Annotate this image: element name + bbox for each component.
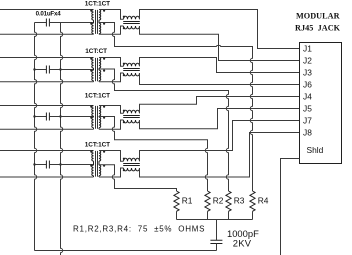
- transformer T2 dot primary bottom: [90, 70, 92, 72]
- choke L1 dot bottom: [123, 27, 125, 29]
- choke L4 winding bottom: [124, 168, 140, 171]
- svg-text:1CT:CT: 1CT:CT: [85, 48, 107, 55]
- choke L4 link top: [99, 151, 124, 162]
- transformer T4 secondary winding top: [99, 151, 101, 162]
- RJ45 jack box: [300, 43, 342, 164]
- junction dot bus A ch4: [33, 163, 35, 165]
- choke L3 link top: [99, 106, 124, 114]
- wire input lead B ch2: [0, 81, 94, 83]
- resistor R3 75 ohm: [226, 191, 231, 211]
- transformer T3 dot secondary top: [103, 106, 105, 108]
- capacitor C4 plates: [46, 161, 49, 169]
- junction dot bus A ch3: [33, 115, 35, 117]
- wire ch4 out A to J7: [140, 121, 300, 162]
- choke L4 link bottom: [99, 168, 124, 177]
- choke L3 core: [123, 116, 140, 118]
- svg-text:R1,R2,R3,R4: 75 ±5% OHMS: R1,R2,R3,R4: 75 ±5% OHMS: [73, 224, 205, 233]
- transformer T4 secondary winding bottom: [99, 165, 101, 176]
- svg-text:J3: J3: [303, 68, 312, 78]
- resistor R4 75 ohm: [250, 191, 255, 211]
- choke L1 link bottom: [99, 26, 124, 34]
- transformer T2 core: [96, 58, 98, 81]
- junction dot bus B ch2: [59, 68, 61, 70]
- transformer T4 core: [96, 151, 98, 177]
- svg-text:R4: R4: [258, 196, 269, 206]
- svg-text:1CT:1CT: 1CT:1CT: [85, 1, 110, 8]
- wire ch2 out A to J3: [140, 58, 300, 73]
- transformer T1 primary winding bottom: [92, 23, 94, 34]
- wire center tap ch4 to R1: [99, 165, 177, 191]
- resistor R1 75 ohm: [174, 191, 179, 211]
- wire ch3 out A to J4: [140, 97, 300, 114]
- svg-text:R3: R3: [234, 196, 245, 206]
- svg-text:J5: J5: [303, 104, 312, 114]
- capacitor C1 plates: [46, 19, 49, 27]
- transformer T4 dot primary top: [90, 151, 92, 153]
- wire ch3 out B to J5: [140, 109, 300, 129]
- resistor R2 75 ohm: [205, 191, 210, 211]
- capacitor C5 plates: [210, 240, 222, 243]
- transformer T4 secondary connect: [98, 161, 100, 177]
- transformer T2 primary connect: [93, 68, 95, 82]
- transformer T4 primary connect: [93, 161, 95, 177]
- wire center tap ch3 to R2: [99, 117, 208, 192]
- capacitor C2 plates: [46, 66, 49, 74]
- svg-text:J7: J7: [303, 116, 312, 126]
- svg-text:1CT:1CT: 1CT:1CT: [85, 142, 110, 149]
- transformer T2 secondary winding bottom: [99, 70, 101, 81]
- wire input lead B ch4: [0, 176, 94, 178]
- svg-text:J6: J6: [303, 80, 312, 90]
- wire input lead A ch3: [0, 105, 94, 107]
- junction dot bus B ch3: [59, 115, 61, 117]
- transformer T1 primary winding top: [92, 10, 94, 21]
- wire input lead A ch4: [0, 150, 94, 152]
- wire ch2 out B to J6: [140, 73, 300, 85]
- transformer T2 secondary winding top: [99, 58, 101, 69]
- ground bus (capacitor common, left): [35, 23, 37, 251]
- choke L3 dot top: [123, 110, 125, 112]
- junction dot bus A ch2: [33, 68, 35, 70]
- transformer T3 secondary winding bottom: [99, 117, 101, 128]
- choke L2 dot bottom: [123, 74, 125, 76]
- wire input lead B ch1: [0, 33, 94, 35]
- resistor R2 bottom lead: [207, 211, 209, 219]
- capacitor C5 1000pF lead top: [216, 220, 218, 241]
- svg-text:J4: J4: [303, 92, 312, 102]
- choke L4 dot top: [123, 158, 125, 160]
- transformer T2 dot secondary top: [103, 58, 105, 60]
- transformer T3 secondary winding top: [99, 106, 101, 117]
- wire input lead A ch1: [0, 9, 94, 11]
- choke L4 dot bottom: [123, 169, 125, 171]
- svg-text:0.01uFx4: 0.01uFx4: [36, 11, 62, 18]
- transformer T1 core: [96, 10, 98, 34]
- choke L3 dot bottom: [123, 121, 125, 123]
- transformer T3 primary connect: [93, 116, 95, 129]
- resistor R3 bottom lead: [228, 211, 230, 219]
- transformer T4 dot secondary bottom: [103, 165, 105, 167]
- wire shield to chassis: [281, 159, 300, 255]
- svg-text:R1: R1: [182, 196, 193, 206]
- capacitor C2 0.01uF lead left: [35, 69, 47, 71]
- choke L4 core: [123, 164, 140, 166]
- wire input lead B ch3: [0, 128, 94, 130]
- capacitor C3 0.01uF lead left: [35, 116, 47, 118]
- transformer T2 secondary connect: [98, 68, 100, 82]
- transformer T2 dot primary top: [90, 58, 92, 60]
- transformer T1 secondary connect: [98, 20, 100, 34]
- capacitor C3 lead right (center tap line): [49, 116, 93, 118]
- choke L2 dot top: [123, 63, 125, 65]
- capacitor C1 0.01uF lead left: [35, 22, 47, 24]
- transformer T3 dot primary top: [90, 106, 92, 108]
- transformer T3 dot secondary bottom: [103, 117, 105, 119]
- transformer T1 dot secondary top: [103, 10, 105, 12]
- wire ch1 out B to J2: [140, 26, 300, 61]
- transformer T3 primary winding bottom: [92, 117, 94, 128]
- wire ch1 out A to J1: [140, 10, 300, 49]
- choke L1 link top: [99, 10, 124, 20]
- wire center tap ch1 to R4: [99, 23, 253, 192]
- capacitor C4 0.01uF lead left: [35, 164, 47, 166]
- transformer T3 core: [96, 106, 98, 129]
- center-tap bus (capacitor right common): [61, 23, 63, 255]
- choke L3 link bottom: [99, 120, 124, 129]
- transformer T2 dot secondary bottom: [103, 70, 105, 72]
- svg-text:2KV: 2KV: [233, 238, 252, 249]
- wire ch4 out B to J8: [140, 133, 300, 178]
- svg-text:R2: R2: [213, 196, 224, 206]
- choke L2 link top: [99, 58, 124, 67]
- choke L2 core: [123, 69, 140, 71]
- choke L4 winding top: [124, 158, 140, 161]
- svg-text:J2: J2: [303, 56, 312, 66]
- choke L1 core: [123, 22, 140, 24]
- wire resistor common bus: [177, 219, 253, 221]
- transformer T4 dot secondary top: [103, 151, 105, 153]
- capacitor C4 lead right (center tap line): [49, 164, 93, 166]
- resistor R4 bottom lead: [252, 211, 254, 219]
- capacitor C5 lead bottom: [216, 244, 218, 251]
- transformer T4 primary winding bottom: [92, 165, 94, 176]
- wire input lead A ch2: [0, 57, 94, 59]
- resistor R1 bottom lead: [176, 211, 178, 219]
- transformer T3 secondary connect: [98, 116, 100, 129]
- transformer T2 primary winding bottom: [92, 70, 94, 81]
- choke L3 winding top: [124, 110, 140, 113]
- transformer T1 dot primary top: [90, 10, 92, 12]
- svg-text:Shld: Shld: [307, 145, 324, 155]
- svg-text:1CT:1CT: 1CT:1CT: [85, 93, 110, 100]
- transformer T1 primary connect: [93, 20, 95, 34]
- transformer T1 secondary winding top: [99, 10, 101, 21]
- svg-text:J1: J1: [303, 44, 312, 54]
- svg-text:MODULAR: MODULAR: [296, 12, 340, 21]
- choke L1 winding top: [124, 16, 140, 19]
- transformer T4 primary winding top: [92, 151, 94, 162]
- wire center tap ch2 to R3: [99, 69, 229, 191]
- capacitor C2 lead right (center tap line): [49, 69, 93, 71]
- capacitor C3 plates: [46, 113, 49, 121]
- svg-text:J8: J8: [303, 128, 312, 138]
- transformer T3 dot primary bottom: [90, 117, 92, 119]
- svg-text:RJ45 JACK: RJ45 JACK: [295, 24, 341, 33]
- wire chassis ground line: [35, 250, 217, 252]
- transformer T1 dot primary bottom: [90, 23, 92, 25]
- choke L2 link bottom: [99, 73, 124, 82]
- choke L3 winding bottom: [124, 120, 140, 123]
- junction dot bus B ch4: [59, 163, 61, 165]
- transformer T3 primary winding top: [92, 106, 94, 117]
- choke L1 winding bottom: [124, 26, 140, 29]
- transformer T2 primary winding top: [92, 58, 94, 69]
- choke L1 dot top: [123, 16, 125, 18]
- choke L2 winding bottom: [124, 73, 140, 76]
- transformer T4 dot primary bottom: [90, 165, 92, 167]
- transformer T1 secondary winding bottom: [99, 23, 101, 34]
- choke L2 winding top: [124, 63, 140, 66]
- capacitor C1 lead right (center tap line): [49, 22, 93, 24]
- transformer T1 dot secondary bottom: [103, 23, 105, 25]
